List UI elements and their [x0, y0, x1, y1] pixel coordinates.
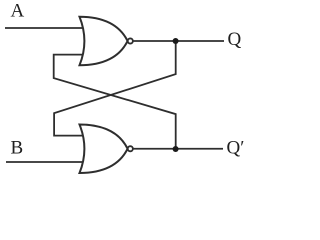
- svg-text:A: A: [11, 0, 25, 21]
- svg-text:B: B: [11, 137, 24, 158]
- svg-text:Q: Q: [228, 29, 242, 50]
- svg-text:Q′: Q′: [227, 138, 245, 159]
